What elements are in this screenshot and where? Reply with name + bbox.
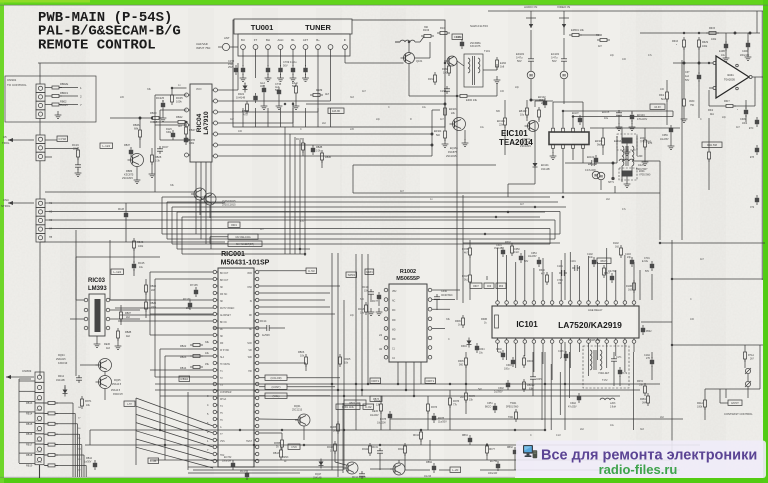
wire	[602, 128, 604, 135]
svg-text:2k?: 2k?	[750, 358, 755, 361]
svg-text:DR71: DR71	[426, 379, 434, 383]
svg-text:AFT: AFT	[303, 38, 309, 42]
svg-text:1k5: 1k5	[628, 289, 633, 292]
svg-text:C400: C400	[742, 50, 748, 53]
capacitor RC28	[124, 213, 128, 217]
svg-text:0.47u: 0.47u	[551, 56, 558, 60]
capacitor GL2	[262, 88, 266, 92]
resistor R630	[683, 99, 686, 106]
capacitor C609	[744, 110, 748, 114]
tuner TU001 label box	[234, 19, 352, 34]
microphone symbol SP1	[592, 171, 600, 179]
wire	[615, 192, 660, 194]
wire	[564, 342, 566, 430]
svg-text:TROL: TROL	[2, 141, 10, 145]
resistor EF-0	[295, 86, 298, 93]
resistor RN12	[334, 444, 337, 451]
IC RIC002 body	[389, 284, 427, 362]
wire	[45, 202, 60, 204]
resistor R163	[424, 35, 431, 38]
wire	[756, 11, 758, 33]
wire	[534, 101, 536, 107]
wire	[167, 238, 555, 240]
wire	[559, 212, 561, 235]
wire	[115, 307, 213, 309]
svg-text:RQ05: RQ05	[114, 379, 121, 382]
resistor RB40	[152, 117, 159, 120]
svg-text:L-36: L-36	[150, 459, 156, 463]
wire	[259, 386, 265, 388]
wire	[210, 236, 228, 238]
svg-text:CN901: CN901	[7, 78, 17, 82]
svg-text:5k6: 5k6	[360, 298, 365, 301]
wire	[60, 202, 225, 204]
svg-text:E0105: E0105	[602, 111, 610, 114]
capacitor RB28b	[311, 148, 315, 152]
wire	[19, 380, 35, 382]
svg-text:R616: R616	[672, 40, 679, 43]
wire	[379, 456, 381, 470]
svg-text:E?5: E?5	[750, 157, 755, 159]
wire	[408, 42, 410, 53]
boxed label C20	[288, 444, 300, 449]
wire	[660, 242, 765, 244]
wire	[135, 398, 137, 465]
resistor R71A	[744, 352, 747, 359]
wire	[218, 100, 331, 102]
capacitor C708/C709 row	[241, 68, 245, 72]
wire	[398, 460, 400, 463]
capacitor C605	[532, 374, 534, 377]
watermark computer icon	[523, 445, 533, 454]
transistor RQ03	[204, 193, 216, 205]
wire	[39, 242, 41, 376]
svg-text:RIC001: RIC001	[221, 251, 245, 258]
wire	[150, 271, 213, 273]
resistor ER104b	[444, 131, 447, 138]
dashed box Z202	[617, 134, 637, 150]
svg-text:DB14: DB14	[180, 367, 187, 370]
wire	[671, 240, 673, 477]
resistor RB42	[178, 121, 185, 124]
wire	[172, 243, 550, 245]
boxed label DR71 b	[425, 378, 436, 383]
resistor RN77	[486, 446, 489, 453]
svg-text:AGC: AGC	[277, 38, 283, 42]
IC RIC03 body	[89, 294, 105, 336]
svg-text:*: *	[737, 109, 738, 112]
node dot	[139, 117, 141, 119]
IC RIC04 right pins	[214, 88, 218, 92]
capacitor EC103	[563, 56, 565, 59]
jack audio	[530, 11, 532, 28]
svg-text:RC28: RC28	[118, 209, 125, 211]
resistor R0B1	[647, 396, 650, 403]
svg-text:B0 OUT: B0 OUT	[220, 273, 229, 275]
wire	[352, 165, 354, 193]
wire	[429, 440, 431, 460]
resistor RB23	[193, 355, 200, 358]
svg-text:RB10: RB10	[181, 377, 189, 381]
boxed label C160	[452, 34, 463, 39]
boxed label L-20	[450, 467, 461, 472]
wire	[370, 297, 372, 302]
resistor RB28	[151, 155, 154, 162]
IC EIC101 bottom pins	[552, 145, 555, 149]
svg-text:4u2: 4u2	[685, 75, 690, 78]
svg-text:1k8: 1k8	[500, 65, 505, 69]
wire	[60, 211, 560, 213]
capacitor ED104	[630, 115, 634, 119]
svg-text:K5A5.9H: K5A5.9H	[113, 393, 123, 396]
svg-text:HIF: HIF	[248, 371, 252, 373]
svg-text:1N41AB: 1N41AB	[313, 477, 322, 480]
wire	[626, 177, 628, 181]
resistor RB2B	[117, 331, 120, 338]
resistor R616	[683, 40, 686, 47]
svg-text:W SYNC: W SYNC	[220, 350, 230, 352]
capacitor E0102	[589, 162, 592, 164]
svg-text:RB13: RB13	[26, 402, 33, 405]
node SP1	[612, 162, 614, 164]
resistor RB46	[139, 130, 142, 137]
wire	[302, 138, 304, 140]
svg-text:10u/20V: 10u/20V	[370, 415, 379, 417]
ground	[370, 308, 372, 312]
wire	[582, 148, 584, 163]
svg-text:22p: 22p	[610, 54, 615, 57]
wire	[155, 389, 640, 391]
wire	[640, 32, 760, 34]
svg-text:100: 100	[500, 90, 505, 93]
wire	[150, 369, 213, 371]
wire	[188, 472, 300, 474]
wire	[408, 64, 410, 97]
svg-text:B8 OUT: B8 OUT	[220, 280, 229, 282]
wire	[160, 395, 620, 397]
wire	[284, 127, 286, 234]
wire	[177, 248, 310, 250]
wire	[259, 270, 306, 272]
svg-text:4k7: 4k7	[440, 118, 445, 121]
wire	[404, 453, 406, 470]
diode R021 1N4148	[243, 86, 248, 90]
wire arrow	[6, 376, 34, 378]
IC RIC04 LA7910 body	[190, 84, 212, 162]
wire	[397, 362, 399, 384]
wire arrow	[8, 202, 34, 204]
resistor R602	[511, 246, 514, 253]
svg-text:10u: 10u	[604, 117, 609, 120]
ground	[57, 111, 59, 115]
wire	[299, 140, 301, 249]
svg-text:2x0SC0015: 2x0SC0015	[222, 199, 236, 203]
wire	[45, 139, 57, 141]
svg-text:5k6: 5k6	[292, 84, 297, 88]
svg-text:C604: C604	[479, 349, 485, 351]
svg-text:MUTV VIDEO: MUTV VIDEO	[220, 308, 235, 310]
svg-text:RB22 100k: RB22 100k	[349, 403, 361, 405]
wire	[149, 272, 151, 335]
transistor TQ2	[346, 462, 358, 474]
resistor RB22	[193, 344, 200, 347]
svg-text:ED101: ED101	[541, 164, 549, 167]
svg-text:R019: R019	[231, 225, 237, 227]
wire	[672, 278, 763, 280]
svg-text:22p: 22p	[376, 118, 381, 121]
wire	[673, 62, 713, 64]
wire	[342, 403, 344, 473]
wire	[345, 103, 445, 105]
wire	[626, 144, 628, 149]
capacitor C602	[506, 383, 510, 387]
svg-text:10u/16: 10u/16	[424, 476, 432, 478]
diode RQ27	[319, 462, 324, 466]
boxed label COLOR	[265, 375, 287, 380]
svg-text:3.9uH: 3.9uH	[610, 407, 616, 409]
svg-text:3.3k: 3.3k	[155, 160, 160, 163]
svg-text:C106: C106	[558, 351, 564, 353]
svg-text:7172: 7172	[622, 373, 628, 375]
ground	[162, 114, 164, 118]
wire	[432, 289, 460, 291]
watermark band	[516, 441, 766, 479]
svg-text:I1041: I1041	[727, 73, 734, 77]
wire	[145, 279, 147, 282]
capacitor C106	[564, 354, 568, 358]
svg-text:100b: 100b	[742, 123, 748, 125]
wire	[289, 134, 291, 239]
svg-text:C60: C60	[487, 286, 492, 288]
transistor R883	[131, 154, 144, 167]
capacitor EB101	[594, 158, 598, 162]
svg-text:C605: C605	[536, 379, 542, 381]
svg-text:200k: 200k	[151, 306, 157, 309]
resistor RC19	[77, 150, 80, 157]
wire	[162, 196, 550, 198]
wire	[64, 385, 66, 389]
wire	[709, 87, 713, 89]
wire	[436, 302, 438, 310]
ground	[626, 148, 628, 152]
resistor RB49	[246, 104, 249, 111]
transistor EQ101	[528, 121, 539, 132]
svg-text:C704: C704	[557, 280, 563, 282]
resistor R606	[462, 318, 465, 325]
green border frame	[0, 0, 768, 5]
resistor RB07	[120, 312, 123, 319]
svg-text:RC12 1u/50V: RC12 1u/50V	[352, 477, 366, 479]
ground	[242, 74, 244, 78]
wire	[720, 402, 728, 404]
capacitor ED106	[578, 118, 582, 122]
resistor R610	[546, 275, 549, 282]
svg-text:SIF: SIF	[248, 350, 252, 352]
wire	[334, 451, 336, 462]
wire	[155, 376, 213, 378]
boxed label R607	[470, 283, 482, 288]
junction dots	[284, 103, 286, 105]
svg-text:OSF: OSF	[247, 287, 252, 289]
svg-text:RN51 110k: RN51 110k	[342, 406, 355, 409]
svg-text:TO CONTROL: TO CONTROL	[7, 83, 27, 87]
resistor RN17	[469, 275, 472, 282]
wire	[255, 66, 257, 78]
wire	[597, 162, 617, 164]
svg-text:C601: C601	[496, 244, 502, 247]
capacitor C162	[446, 86, 448, 89]
IC RIC001 left pins	[213, 270, 216, 273]
svg-text:10u: 10u	[498, 351, 503, 354]
wire	[44, 402, 48, 404]
capacitor R502	[641, 328, 645, 332]
svg-text:A70: A70	[243, 113, 248, 117]
microphone symbol M3	[597, 172, 605, 180]
IC EIC101 body	[549, 132, 589, 145]
resistor RN74	[465, 393, 468, 400]
boxed label SP03	[346, 272, 357, 277]
capacitor ED103	[530, 56, 532, 59]
microphone symbol M1	[527, 71, 535, 79]
capacitor E5C	[755, 120, 759, 124]
wire	[187, 392, 189, 470]
wire	[361, 254, 363, 396]
svg-text:7x110: 7x110	[36, 420, 43, 422]
capacitor C604	[475, 346, 479, 350]
wire	[488, 10, 763, 12]
capacitor RC14	[264, 327, 267, 329]
capacitor R129	[171, 133, 175, 137]
wire	[188, 466, 343, 468]
svg-text:SAW-F1LT03: SAW-F1LT03	[470, 24, 488, 28]
wire	[195, 162, 197, 234]
capacitor C659	[669, 128, 673, 132]
wire	[242, 49, 244, 66]
wire	[45, 191, 195, 193]
capacitor C600	[501, 353, 505, 357]
tuner pins	[241, 45, 246, 50]
connector CN901	[36, 84, 45, 93]
capacitor RC10	[370, 289, 372, 292]
svg-text:47u: 47u	[622, 208, 627, 211]
wire	[562, 148, 564, 193]
svg-text:L-124: L-124	[113, 270, 121, 274]
svg-text:RC05: RC05	[176, 96, 183, 100]
svg-text:SL4: SL4	[220, 357, 225, 359]
svg-text:10u: 10u	[480, 126, 485, 129]
transformer T172 coil	[590, 350, 592, 355]
wire	[486, 453, 488, 460]
resistor R189	[313, 94, 320, 97]
svg-text:1N4148: 1N4148	[236, 96, 246, 100]
svg-text:C: C	[300, 128, 302, 131]
svg-text:50V: 50V	[685, 79, 690, 82]
svg-text:RC225: RC225	[156, 96, 165, 100]
antenna ANT	[222, 43, 229, 50]
resistor RN91	[81, 399, 84, 406]
svg-text:2u2/50V: 2u2/50V	[494, 392, 503, 394]
IC RIC03 pins	[84, 298, 88, 302]
component R608 inside	[495, 315, 499, 328]
wire	[480, 469, 680, 471]
resistor R10B	[633, 283, 636, 290]
svg-text:330k: 330k	[166, 131, 172, 134]
resistor RN5B	[281, 440, 284, 447]
wire	[120, 314, 213, 316]
resistor RN73	[427, 404, 430, 411]
wire	[167, 201, 558, 203]
svg-text:R021: R021	[238, 92, 245, 96]
wire	[304, 143, 306, 254]
wire	[38, 62, 233, 64]
capacitor C109	[650, 360, 654, 364]
wire	[752, 76, 763, 78]
capacitor C654	[537, 260, 541, 264]
boxed label L-524	[111, 269, 124, 274]
resistor RB02E group	[52, 86, 59, 89]
svg-text:100k: 100k	[176, 100, 182, 104]
capacitor RC12	[361, 471, 363, 474]
svg-text:C1?1: C1?1	[616, 357, 622, 359]
svg-text:Y00Ω-0ET: Y00Ω-0ET	[598, 372, 610, 375]
capacitor C400	[746, 43, 750, 47]
pot circle a	[745, 368, 750, 373]
svg-text:4k7: 4k7	[230, 118, 235, 121]
boxed label GRN	[365, 269, 374, 274]
svg-text:2k2: 2k2	[541, 102, 546, 105]
IC RIC001 right pins	[256, 270, 259, 273]
wire	[259, 285, 340, 287]
wire	[367, 254, 369, 384]
ground	[670, 142, 672, 146]
wire	[355, 254, 357, 430]
svg-text:RE15: RE15	[372, 410, 379, 413]
capacitor RY13b	[188, 303, 192, 307]
resistor RB13b	[280, 450, 283, 457]
capacitor C171	[613, 356, 615, 359]
ground	[725, 54, 727, 58]
wire	[590, 127, 680, 129]
wire	[172, 206, 566, 208]
boxed label VOL	[265, 393, 287, 398]
boxed label L-36	[148, 458, 159, 463]
svg-text:4k7: 4k7	[178, 124, 183, 128]
wire	[573, 116, 673, 118]
dashed box Z201	[619, 168, 637, 180]
capacitor E153r	[755, 198, 759, 202]
resistor E300	[460, 95, 467, 98]
svg-text:R607: R607	[473, 286, 479, 288]
svg-text:RC31: RC31	[372, 447, 379, 449]
wire	[160, 348, 213, 350]
connector CN803	[35, 372, 44, 382]
resistor RC37	[302, 143, 305, 150]
svg-text:100: 100	[238, 130, 243, 133]
wire	[205, 162, 207, 244]
wire	[210, 162, 212, 249]
wire	[485, 192, 615, 194]
wire	[670, 135, 672, 142]
capacitor R07B	[184, 138, 188, 142]
svg-text:4k3: 4k3	[106, 347, 111, 350]
wire	[242, 108, 244, 127]
ground	[618, 123, 620, 127]
svg-text:C101: C101	[557, 265, 563, 268]
wire	[182, 253, 305, 255]
svg-text:EN70?: EN70?	[731, 402, 739, 405]
resistor ER501	[572, 34, 579, 37]
wire	[218, 133, 433, 135]
